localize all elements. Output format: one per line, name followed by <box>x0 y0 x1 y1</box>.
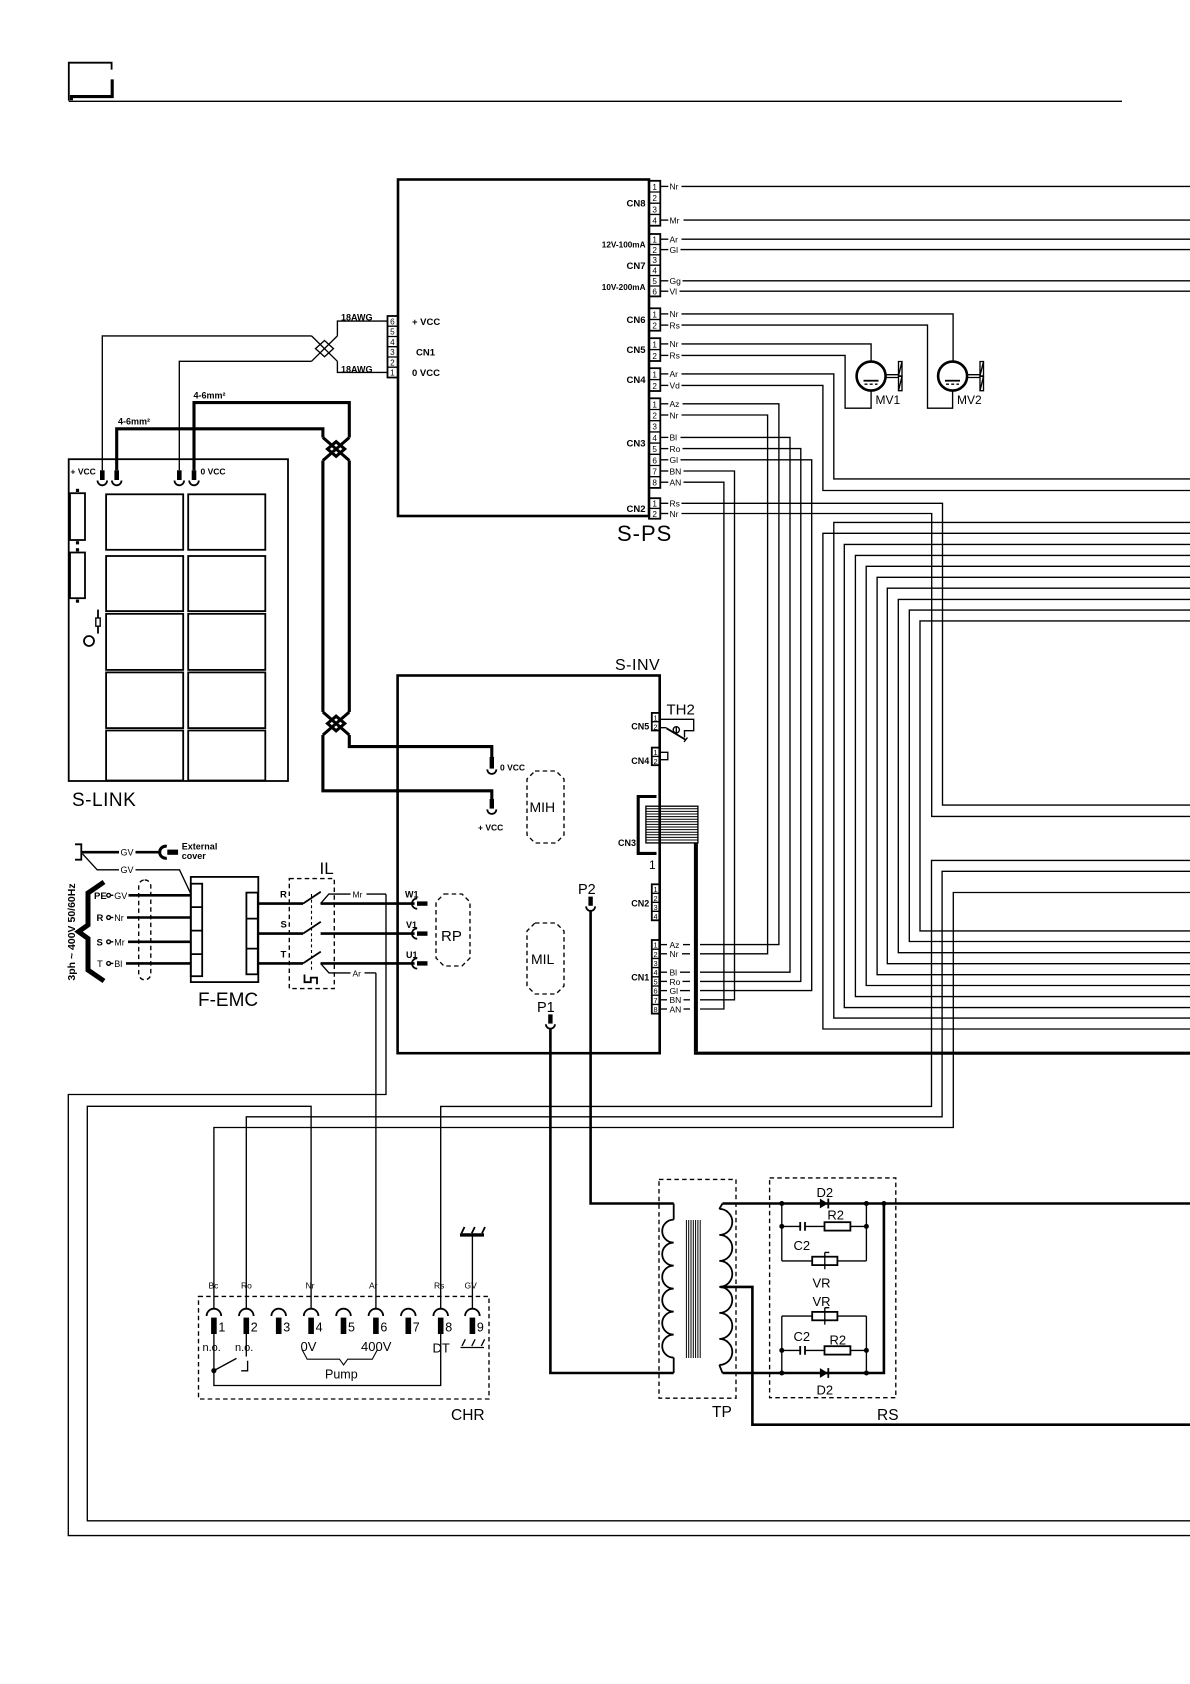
svg-text:cover: cover <box>182 851 207 861</box>
connector CN1 on S-PS left <box>388 316 441 379</box>
terminal W1 <box>405 890 428 909</box>
wire loop W5 to right edge <box>866 566 1190 985</box>
connector CN5 S-INV <box>631 713 659 732</box>
switch R <box>258 890 415 904</box>
svg-text:3: 3 <box>654 959 658 968</box>
svg-text:n.o.: n.o. <box>203 1342 221 1354</box>
svg-text:5: 5 <box>348 1321 355 1335</box>
filter F-EMC box <box>191 877 258 982</box>
svg-text:Gg: Gg <box>670 276 682 286</box>
svg-text:D2: D2 <box>817 1383 834 1398</box>
svg-text:Nr: Nr <box>670 949 679 959</box>
S-PS board box <box>398 180 649 517</box>
svg-text:1: 1 <box>652 370 657 379</box>
ribbon cable band <box>646 806 698 843</box>
svg-text:Rs: Rs <box>670 320 680 330</box>
wire CN6-2 Rs to MV2 <box>660 324 668 326</box>
junction dots RS <box>779 1201 886 1376</box>
connector CN6 <box>626 308 660 330</box>
contactor IL dashed box <box>289 879 334 989</box>
svg-text:2: 2 <box>652 322 657 331</box>
svg-text:2: 2 <box>654 757 658 766</box>
wire CN1-5 Ro stub <box>660 980 668 982</box>
wire GV to F-EMC earth <box>83 854 120 870</box>
svg-text:CN1: CN1 <box>631 973 649 983</box>
svg-text:2: 2 <box>251 1321 258 1335</box>
svg-text:+ VCC: + VCC <box>71 467 96 477</box>
svg-text:Vd: Vd <box>670 381 681 391</box>
svg-text:T: T <box>97 959 103 970</box>
svg-text:7: 7 <box>652 468 657 477</box>
svg-text:Nr: Nr <box>114 913 124 923</box>
snubber upper branch <box>782 1204 867 1291</box>
wire loop W8 to right edge <box>898 599 1190 952</box>
RS top rail <box>723 1202 1190 1205</box>
svg-text:GV: GV <box>121 848 134 858</box>
connector CN8 <box>626 181 660 226</box>
svg-text:1: 1 <box>654 714 658 723</box>
connector CN2 <box>626 498 660 519</box>
svg-text:1: 1 <box>654 941 658 950</box>
probe P2 <box>578 882 596 911</box>
svg-text:S: S <box>97 938 103 949</box>
wire CN1-6 Gl stub <box>660 990 668 992</box>
svg-text:Nr: Nr <box>306 1281 315 1291</box>
IL mechanical latch <box>305 975 318 985</box>
svg-text:1: 1 <box>390 369 395 378</box>
svg-text:3: 3 <box>390 348 395 357</box>
svg-text:Ar: Ar <box>369 1281 378 1291</box>
chassis earth symbol <box>460 1227 485 1235</box>
svg-text:CN2: CN2 <box>631 899 649 909</box>
wire CN3-4 Bl column to S-INV CN1-4 <box>660 436 668 438</box>
cable sheath <box>139 880 151 980</box>
svg-text:R: R <box>97 913 104 924</box>
wire CHR8 Rs from right edge <box>441 860 1190 1308</box>
terminal V1 <box>406 920 428 939</box>
S-INV board box <box>398 676 660 1054</box>
wire DT to contact <box>214 1334 441 1386</box>
svg-text:1: 1 <box>652 183 657 192</box>
svg-text:2: 2 <box>654 722 658 731</box>
wire CN5-1 Nr to MV1 <box>660 343 668 345</box>
svg-text:Pump: Pump <box>325 1368 358 1382</box>
svg-text:0 VCC: 0 VCC <box>500 763 525 773</box>
svg-text:VR: VR <box>813 1294 831 1309</box>
twisted pair crossing thick upper <box>323 438 349 461</box>
input S <box>97 938 191 949</box>
svg-text:CHR: CHR <box>451 1407 485 1424</box>
CHR terminal 7 <box>401 1309 420 1335</box>
svg-text:+ VCC: + VCC <box>412 317 440 328</box>
svg-text:Bl: Bl <box>114 959 122 969</box>
wire CN3-6 Gl column to S-INV CN1-6 <box>660 459 668 461</box>
svg-text:2: 2 <box>652 382 657 391</box>
svg-text:10V-200mA: 10V-200mA <box>602 283 646 292</box>
svg-text:4: 4 <box>654 912 658 921</box>
svg-text:CN4: CN4 <box>626 375 646 386</box>
svg-text:Ar: Ar <box>353 968 362 978</box>
svg-text:CN8: CN8 <box>626 199 645 210</box>
wire CN1-7 BN stub <box>660 999 668 1001</box>
svg-text:S-PS: S-PS <box>617 521 672 546</box>
terminal 0 VCC <box>487 757 525 774</box>
svg-text:3: 3 <box>652 423 657 432</box>
svg-text:T: T <box>281 949 287 960</box>
relay contact n.o. <box>211 1334 247 1373</box>
svg-text:Mr: Mr <box>114 938 125 948</box>
svg-text:C2: C2 <box>794 1238 811 1253</box>
wire loop W6 to right edge <box>877 577 1190 974</box>
TP centre tap to right edge <box>721 1287 1190 1425</box>
wire P1 to TP primary bottom <box>550 1029 673 1373</box>
svg-text:Mr: Mr <box>670 215 680 225</box>
terminal bolt 1 <box>98 470 108 485</box>
wire CN4-2 Vd loop to right edge <box>660 384 668 386</box>
svg-text:External: External <box>182 842 218 852</box>
wire twisted pair lower to S-LINK terminal 3 <box>179 361 311 470</box>
TP secondary winding <box>719 1204 732 1374</box>
svg-text:CN3: CN3 <box>618 838 636 848</box>
svg-text:Vl: Vl <box>670 287 678 297</box>
svg-text:S-INV: S-INV <box>615 657 660 674</box>
twisted pair crossing <box>312 336 338 361</box>
terminal strip CHR dashed box <box>199 1296 490 1399</box>
svg-text:2: 2 <box>390 359 395 368</box>
svg-text:3: 3 <box>654 903 658 912</box>
CHR terminal 3 <box>271 1309 290 1335</box>
wire thick +VCC from terminal 2 <box>117 429 323 471</box>
wire CN7-2 Gl to right edge <box>660 249 668 251</box>
wire CN1-8 AN stub <box>660 1008 668 1010</box>
wire Mr bottom bus <box>68 894 1190 1536</box>
module MIL <box>527 923 564 994</box>
connector CN4 <box>626 368 660 391</box>
svg-text:CN7: CN7 <box>626 261 645 272</box>
external cover plug <box>160 842 218 862</box>
switch S <box>258 920 415 934</box>
svg-text:C2: C2 <box>794 1329 811 1344</box>
svg-text:1: 1 <box>654 885 658 894</box>
svg-text:S: S <box>281 920 287 931</box>
terminal U1 <box>406 950 428 969</box>
wire twisted pair upper to S-LINK terminal 1 <box>102 336 311 470</box>
thermostat TH2 <box>660 702 695 743</box>
wire GV to external cover <box>81 851 119 854</box>
connector CN2 S-INV <box>631 884 659 921</box>
terminal bolt 2 <box>112 470 122 485</box>
TP primary winding <box>662 1204 674 1374</box>
switch T <box>258 949 415 963</box>
svg-text:1: 1 <box>652 500 657 509</box>
svg-text:0 VCC: 0 VCC <box>412 368 440 379</box>
input R <box>97 913 191 924</box>
svg-text:1: 1 <box>218 1321 225 1335</box>
wire Ar branch <box>321 963 376 978</box>
svg-text:GV: GV <box>114 891 127 901</box>
wire loop W10 to right edge <box>920 621 1190 931</box>
rectifier RS dashed box <box>770 1178 896 1398</box>
svg-text:6: 6 <box>654 987 658 996</box>
terminal bolt 3 <box>175 470 185 485</box>
svg-text:CN4: CN4 <box>631 756 649 766</box>
svg-text:GV: GV <box>465 1281 478 1291</box>
wire CN1-6 +VCC lead <box>337 321 387 336</box>
connector CN1 S-INV <box>631 940 659 1014</box>
svg-text:n.o.: n.o. <box>235 1342 253 1354</box>
svg-text:6: 6 <box>652 456 657 465</box>
wire CN8-1 Nr to right edge <box>660 185 668 187</box>
svg-text:Bl: Bl <box>670 433 678 443</box>
svg-text:6: 6 <box>652 287 657 296</box>
svg-text:Rs: Rs <box>434 1281 444 1291</box>
wire CN3-7 BN column to S-INV CN1-7 <box>660 470 668 472</box>
ribbon cable down and to right edge <box>694 843 698 1052</box>
CHR terminal 9 <box>465 1309 484 1335</box>
pump brace <box>302 1350 378 1365</box>
svg-text:Nr: Nr <box>670 182 679 192</box>
connector CN3 <box>626 398 660 488</box>
svg-text:3: 3 <box>652 256 657 265</box>
svg-text:5: 5 <box>654 977 658 986</box>
IL linkage dashed <box>311 894 313 972</box>
probe P1 <box>537 1000 555 1029</box>
wire CHR2 Ro from right edge <box>246 871 1190 1308</box>
wire CHR4 Nr bottom bus <box>87 1106 1190 1521</box>
svg-text:1: 1 <box>654 748 658 757</box>
svg-text:4-6mm²: 4-6mm² <box>194 391 226 401</box>
svg-text:CN5: CN5 <box>631 722 649 732</box>
svg-text:Nr: Nr <box>670 509 679 519</box>
svg-text:CN6: CN6 <box>626 315 645 326</box>
svg-text:MIH: MIH <box>530 799 556 815</box>
TP core <box>686 1220 700 1358</box>
svg-text:2: 2 <box>654 894 658 903</box>
svg-text:6: 6 <box>380 1321 387 1335</box>
wire thick 0VCC into S-INV <box>349 735 492 757</box>
wire CN4-1 Ar loop to right edge <box>660 373 668 375</box>
svg-text:CN2: CN2 <box>626 504 645 515</box>
wire loop W1 to right edge <box>834 522 1190 1018</box>
wire CN7-5 Gg to right edge <box>660 280 668 282</box>
svg-text:1: 1 <box>652 400 657 409</box>
svg-text:Ar: Ar <box>670 369 679 379</box>
svg-text:3ph ~ 400V 50/60Hz: 3ph ~ 400V 50/60Hz <box>66 883 78 980</box>
svg-text:5: 5 <box>390 328 395 337</box>
svg-text:AN: AN <box>670 1004 682 1014</box>
svg-text:1: 1 <box>649 858 656 872</box>
svg-text:R: R <box>280 890 287 901</box>
CHR terminal 2 <box>239 1309 258 1335</box>
svg-text:3: 3 <box>283 1321 290 1335</box>
svg-text:4: 4 <box>652 267 657 276</box>
wire CN2-1 Rs loop to right edge <box>660 502 668 504</box>
svg-text:4-6mm²: 4-6mm² <box>118 417 150 427</box>
motor fan MV2 <box>938 362 983 408</box>
wire GV to chassis <box>471 1236 473 1309</box>
svg-text:Rs: Rs <box>670 351 680 361</box>
svg-text:2: 2 <box>652 510 657 519</box>
svg-text:2: 2 <box>652 246 657 255</box>
wire loop W3 to right edge <box>844 544 1190 1007</box>
svg-text:Mr: Mr <box>353 889 363 899</box>
svg-text:R2: R2 <box>830 1333 847 1348</box>
svg-text:4: 4 <box>652 217 657 226</box>
connector CN4 S-INV with jumper <box>631 748 668 766</box>
svg-text:P1: P1 <box>537 1000 555 1016</box>
svg-text:CN5: CN5 <box>626 345 646 356</box>
svg-text:5: 5 <box>652 277 657 286</box>
wire thick pair middle section <box>323 461 349 713</box>
svg-text:PE: PE <box>94 891 107 902</box>
svg-text:Gl: Gl <box>670 245 679 255</box>
svg-text:MIL: MIL <box>531 951 555 967</box>
svg-text:4: 4 <box>654 968 658 977</box>
CHR terminal 6 <box>369 1309 388 1335</box>
svg-text:VR: VR <box>813 1276 831 1291</box>
svg-text:Gl: Gl <box>670 455 679 465</box>
S-LINK board box <box>69 459 288 781</box>
twisted pair crossing thick lower <box>323 712 349 735</box>
svg-text:4: 4 <box>652 434 657 443</box>
svg-text:5: 5 <box>652 445 657 454</box>
wire loop W4 to right edge <box>855 555 1190 996</box>
svg-text:2: 2 <box>652 352 657 361</box>
wire thick +VCC into S-INV <box>323 735 492 799</box>
svg-text:Bc: Bc <box>209 1281 220 1291</box>
capacitor block 1 <box>70 489 85 545</box>
module RP <box>436 894 470 966</box>
wire CN7-6 Vl to right edge <box>660 290 668 292</box>
svg-text:IL: IL <box>320 859 334 878</box>
svg-text:TP: TP <box>712 1404 732 1421</box>
svg-text:2: 2 <box>654 950 658 959</box>
transformer TP dashed box <box>659 1179 736 1398</box>
svg-text:BN: BN <box>670 466 682 476</box>
svg-text:RP: RP <box>441 928 462 945</box>
svg-text:Nr: Nr <box>670 309 679 319</box>
svg-text:CN1: CN1 <box>416 348 436 359</box>
wire Ar to CHR6 <box>375 973 377 1309</box>
svg-text:Az: Az <box>670 399 680 409</box>
wire Mr branch <box>321 889 386 903</box>
svg-text:2: 2 <box>652 194 657 203</box>
CHR terminal 8 <box>433 1309 452 1335</box>
input T <box>97 959 191 970</box>
svg-text:Ro: Ro <box>670 444 681 454</box>
svg-text:0 VCC: 0 VCC <box>201 467 226 477</box>
wire CN5-2 Rs to MV1 <box>660 354 668 356</box>
mains bracket <box>75 844 81 859</box>
svg-text:F-EMC: F-EMC <box>198 990 258 1011</box>
svg-text:Rs: Rs <box>670 499 680 509</box>
CHR terminal 4 <box>304 1309 323 1335</box>
RS bottom rail <box>723 1204 884 1374</box>
svg-text:R2: R2 <box>827 1208 844 1223</box>
S-LINK cell grid <box>106 494 265 780</box>
wire CN1-1 Az stub <box>660 944 668 946</box>
svg-text:CN3: CN3 <box>626 439 645 450</box>
wire CN7-1 Ar to right edge <box>660 238 668 240</box>
module MIH <box>527 771 564 843</box>
snubber lower branch <box>782 1294 867 1373</box>
CHR terminal 5 <box>336 1309 355 1335</box>
diode D2 bottom <box>817 1368 834 1397</box>
wire CN1-1 0VCC lead <box>337 361 387 372</box>
svg-text:P2: P2 <box>578 882 596 898</box>
wire CN3-2 Nr column to S-INV CN1-2 <box>660 414 668 416</box>
svg-text:AN: AN <box>670 478 682 488</box>
wire CHR1 Bc from right edge <box>214 893 1190 1309</box>
svg-text:4: 4 <box>390 338 395 347</box>
motor fan MV1 <box>857 362 902 408</box>
svg-text:Ar: Ar <box>670 235 679 245</box>
svg-text:S-LINK: S-LINK <box>72 790 136 811</box>
wire CN3-8 AN column to S-INV CN1-8 <box>660 481 668 483</box>
svg-text:Ro: Ro <box>241 1281 252 1291</box>
page logo top-left <box>69 63 112 101</box>
svg-text:D2: D2 <box>817 1185 834 1200</box>
svg-text:4: 4 <box>316 1321 323 1335</box>
wire CN3-5 Ro column to S-INV CN1-5 <box>660 448 668 450</box>
wire CN8-4 Mr to right edge <box>660 219 668 221</box>
svg-text:TH2: TH2 <box>667 702 695 719</box>
connector CN5 <box>626 338 660 361</box>
svg-text:GV: GV <box>121 865 134 875</box>
connector CN3 S-INV ribbon <box>618 797 657 873</box>
top rule line <box>69 100 1122 102</box>
svg-text:7: 7 <box>413 1321 420 1335</box>
mains brace 3ph <box>79 882 105 981</box>
capacitor block 2 <box>70 548 85 603</box>
svg-text:2: 2 <box>652 412 657 421</box>
svg-text:7: 7 <box>654 996 658 1005</box>
svg-text:Nr: Nr <box>670 339 679 349</box>
terminal bolt 4 <box>189 470 199 485</box>
fuse link with indicator <box>84 610 100 646</box>
connector CN7 <box>602 234 661 296</box>
wire CN6-1 Nr to MV2 <box>660 313 668 315</box>
wire CN1-4 Bl stub <box>660 971 668 973</box>
svg-text:1: 1 <box>652 310 657 319</box>
wire thick 0VCC from terminal 4 <box>194 403 349 471</box>
diode D2 top <box>817 1185 834 1208</box>
wire loop W7 to right edge <box>887 588 1190 964</box>
svg-text:8: 8 <box>654 1005 658 1014</box>
svg-text:12V-100mA: 12V-100mA <box>602 240 646 249</box>
wire P2 to TP primary top <box>591 911 674 1204</box>
svg-text:1: 1 <box>652 340 657 349</box>
svg-text:9: 9 <box>477 1321 484 1335</box>
svg-text:8: 8 <box>445 1321 452 1335</box>
svg-text:3: 3 <box>652 205 657 214</box>
svg-text:8: 8 <box>652 479 657 488</box>
wire CN3-1 Az column to S-INV CN1-1 <box>660 403 668 405</box>
input PE <box>94 891 191 902</box>
wire CN1-2 Nr stub <box>660 953 668 955</box>
svg-text:Nr: Nr <box>670 410 679 420</box>
svg-text:MV1: MV1 <box>876 393 901 407</box>
wire loop W2 to right edge <box>823 533 1190 1029</box>
terminal + VCC <box>478 799 503 833</box>
svg-text:RS: RS <box>877 1407 899 1424</box>
svg-text:+ VCC: + VCC <box>478 823 503 833</box>
CHR terminal 1 <box>207 1309 226 1335</box>
svg-text:MV2: MV2 <box>957 393 982 407</box>
chassis symbol below terminal 9 <box>461 1339 485 1347</box>
svg-text:1: 1 <box>652 235 657 244</box>
svg-text:6: 6 <box>390 318 395 327</box>
